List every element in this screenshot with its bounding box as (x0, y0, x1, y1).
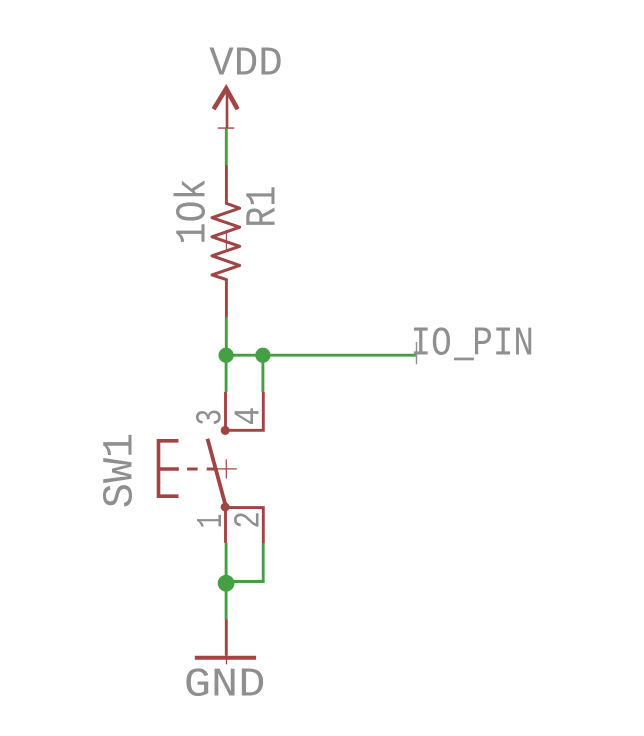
net label underscore (454, 358, 474, 361)
svg-text:GND: GND (184, 663, 266, 709)
wire node B to switch pin 4 (261, 355, 264, 392)
svg-text:IO PIN: IO PIN (411, 321, 535, 367)
switch SW1 origin cross (217, 459, 237, 478)
svg-text:4: 4 (228, 407, 269, 426)
resistor R1 bottom pin (225, 280, 228, 318)
wire node C to GND (225, 583, 228, 619)
svg-text:1: 1 (191, 514, 232, 529)
wire VDD to R1 (225, 128, 228, 166)
junction node B (255, 348, 270, 363)
switch SW1 pin 4 (226, 392, 264, 430)
ground symbol thin pin cross (226, 655, 228, 664)
svg-text:R1: R1 (239, 186, 288, 228)
switch SW1 actuator lever (208, 439, 226, 506)
switch SW1 pin 3 (224, 392, 227, 430)
svg-text:2: 2 (228, 511, 269, 529)
switch SW1 button bracket (159, 441, 179, 496)
switch SW1 pin 3 junction dot (221, 426, 230, 435)
svg-text:3: 3 (191, 409, 232, 426)
resistor R1 thin pin line (225, 230, 227, 250)
svg-text:1Ok: 1Ok (169, 179, 218, 245)
svg-text:SW1: SW1 (96, 433, 145, 509)
wire R1 to node A (225, 317, 228, 355)
resistor R1 zigzag body (212, 203, 240, 279)
ground symbol bar (195, 656, 256, 660)
switch SW1 pin 1 (224, 507, 227, 543)
supply symbol VDD arrow (214, 89, 238, 129)
wire switch pin 1 to node C (225, 543, 228, 584)
switch SW1 dashed link (187, 468, 215, 471)
label origin tick (416, 342, 418, 364)
wire node A to switch pin 3 (225, 355, 228, 392)
switch SW1 pin 1 junction dot (221, 503, 230, 512)
wire node B to IO_PIN label (263, 354, 417, 357)
wire node A to node B (226, 354, 263, 357)
ground symbol stem (225, 619, 228, 655)
wire switch pin 2 to node C (226, 543, 263, 582)
switch SW1 pin 2 (226, 508, 264, 544)
junction node C (218, 575, 235, 592)
resistor R1 top pin (225, 166, 228, 204)
svg-text:VDD: VDD (209, 42, 282, 88)
junction node A (219, 348, 234, 363)
pin crossbar of VDD symbol (218, 127, 235, 129)
